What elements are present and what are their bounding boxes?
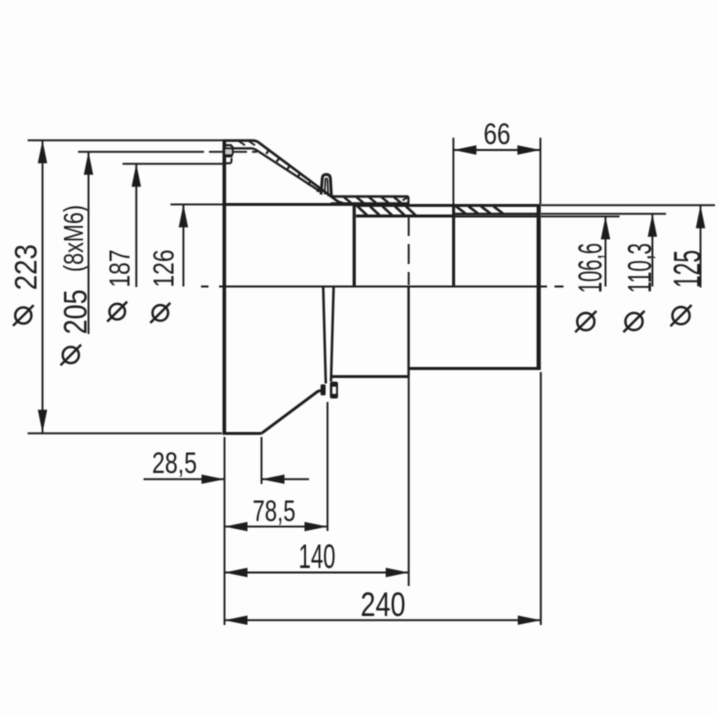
svg-text:125: 125 [667, 250, 709, 288]
svg-text:240: 240 [361, 586, 406, 624]
svg-text:187: 187 [105, 250, 137, 288]
svg-text:66: 66 [484, 118, 511, 151]
svg-text:205: 205 [58, 289, 94, 334]
svg-text:110,3: 110,3 [621, 243, 658, 293]
svg-text:126: 126 [149, 250, 181, 288]
svg-text:106,6: 106,6 [572, 243, 609, 293]
svg-text:(8xM6): (8xM6) [58, 205, 89, 272]
svg-text:140: 140 [299, 538, 336, 576]
svg-text:28,5: 28,5 [152, 447, 197, 480]
svg-text:223: 223 [8, 244, 44, 290]
svg-text:78,5: 78,5 [253, 495, 296, 528]
